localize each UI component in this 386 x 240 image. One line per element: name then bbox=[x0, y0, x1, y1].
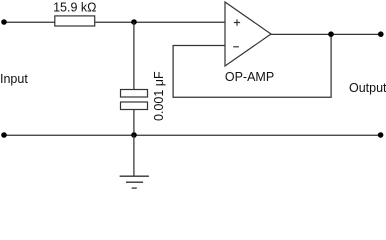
svg-text:15.9 kΩ: 15.9 kΩ bbox=[53, 0, 96, 14]
capacitor 0.001 uF top plate bbox=[121, 90, 148, 98]
feedback wire: output junction to inverting input bbox=[173, 34, 331, 97]
capacitor 0.001 uF bottom plate bbox=[121, 102, 148, 110]
ground bbox=[120, 176, 149, 188]
resistor 15.9 kOhm bbox=[55, 16, 95, 26]
wire: op-amp output bbox=[271, 33, 381, 35]
node: junction resistor/capacitor bbox=[131, 19, 137, 25]
wire: resistor to op-amp non-inverting input bbox=[95, 21, 226, 23]
op-amp plus (non-inverting) marker bbox=[234, 19, 240, 25]
op-amp body bbox=[225, 2, 271, 66]
svg-text:OP-AMP: OP-AMP bbox=[225, 70, 274, 84]
svg-text:Output: Output bbox=[349, 81, 386, 95]
wire: capacitor to bottom rail bbox=[133, 110, 135, 136]
svg-text:0.001 μF: 0.001 μF bbox=[152, 71, 166, 121]
op-amp minus (inverting) marker bbox=[233, 46, 239, 48]
node: bottom junction bbox=[131, 132, 137, 138]
node: bottom-right terminal bbox=[378, 132, 384, 138]
wire: junction down to capacitor bbox=[133, 22, 135, 90]
node: output terminal bbox=[378, 31, 384, 37]
wire: bottom junction to ground bbox=[133, 135, 135, 176]
node: output junction bbox=[328, 31, 334, 37]
node: input terminal bbox=[1, 19, 7, 25]
node: bottom-left terminal bbox=[1, 132, 7, 138]
svg-text:Input: Input bbox=[0, 72, 28, 86]
wire: input to resistor bbox=[4, 21, 55, 23]
bottom rail wire bbox=[4, 134, 381, 136]
